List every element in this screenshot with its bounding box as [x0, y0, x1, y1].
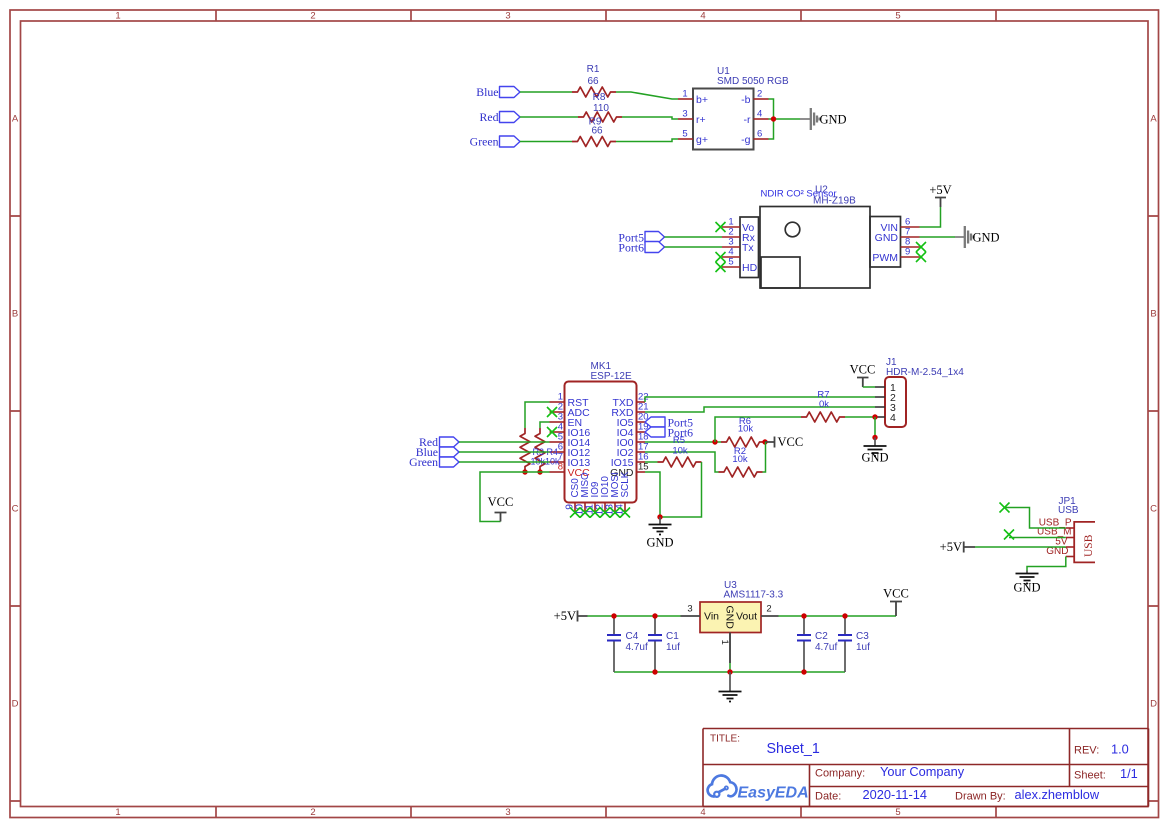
svg-text:R8: R8 [593, 92, 606, 103]
svg-text:Date:: Date: [815, 791, 841, 803]
svg-text:Sheet:: Sheet: [1074, 770, 1106, 782]
wire R8 to U1 pin3 [622, 117, 678, 119]
connector JP1 outline [1074, 522, 1095, 563]
junction dots top rail [611, 613, 616, 618]
svg-text:g+: g+ [696, 134, 708, 146]
U1 pin 5 g+ [678, 138, 693, 140]
wire R5 down to GND rail [660, 462, 702, 517]
bottom ground rail [614, 671, 845, 673]
svg-text:4.7uf: 4.7uf [626, 642, 648, 653]
capacitor C3 [838, 616, 870, 672]
ruler ticks right [1148, 216, 1159, 801]
capacitor C1 [648, 616, 680, 672]
wire Red to R8 [520, 116, 578, 118]
wire Green to IO13 [459, 461, 550, 463]
wire output rail [779, 615, 897, 617]
wire +5V to VIN [920, 207, 941, 227]
svg-text:B: B [1150, 309, 1156, 320]
U1 pin 1 b+ [678, 98, 693, 100]
wire GND pin down [1027, 557, 1066, 571]
sensor right pin block [870, 217, 901, 268]
svg-text:10k: 10k [732, 454, 748, 465]
EasyEDA logo cloud [708, 776, 737, 797]
svg-text:C: C [12, 504, 19, 515]
svg-text:Green: Green [470, 135, 499, 149]
bottom pin names CS0 MISO IO9 IO10 MOSI SCLK [570, 471, 631, 497]
svg-text:GND: GND [861, 451, 888, 465]
svg-text:4: 4 [890, 412, 896, 424]
wire RST to R3 [525, 402, 550, 428]
sensor lens circle [785, 222, 800, 237]
svg-text:Red: Red [479, 110, 498, 124]
U3 pin 2 [761, 615, 779, 617]
wire USB_M [1009, 537, 1066, 539]
svg-text:+5V: +5V [554, 609, 576, 623]
resistor R3 (vertical) [520, 428, 530, 472]
svg-text:PWM: PWM [872, 252, 898, 264]
wire R1 to U1 pin1 [616, 92, 678, 99]
capacitor C2 [797, 616, 837, 672]
svg-text:GND: GND [875, 232, 899, 244]
wire Red to IO14 [459, 441, 550, 443]
junction R4 bottom [537, 469, 542, 474]
svg-text:Blue: Blue [476, 85, 498, 99]
pin 3 Tx [722, 246, 740, 248]
svg-text:0k: 0k [819, 399, 829, 410]
wire VCC rail to flag [480, 472, 550, 522]
pin 17 IO2 [637, 451, 646, 453]
sensor notch [761, 257, 800, 288]
svg-text:VCC: VCC [883, 587, 909, 601]
svg-text:C: C [1150, 504, 1157, 515]
junction dots bottom rail [652, 669, 657, 674]
wire pin15 GND down [645, 472, 660, 517]
bottom pins 9-14 stubs [575, 503, 625, 514]
svg-text:2020-11-14: 2020-11-14 [863, 787, 928, 802]
svg-text:HDR-M-2.54_1x4: HDR-M-2.54_1x4 [886, 367, 964, 378]
port Blue [440, 447, 460, 457]
wire IO15 to R5 [645, 461, 658, 463]
JP1 pin GND [1066, 556, 1074, 558]
wire GND pin7 [920, 236, 956, 238]
X no-connect USB_P [1000, 503, 1010, 513]
junction J1 pin4 [872, 414, 877, 419]
svg-text:-b: -b [741, 94, 750, 106]
pin 8 [901, 246, 920, 248]
pin 5 IO14 [550, 441, 565, 443]
svg-text:VCC: VCC [850, 363, 876, 377]
svg-text:10k: 10k [672, 446, 688, 457]
resistor R9 [572, 137, 616, 147]
svg-text:10k: 10k [738, 424, 754, 435]
svg-text:1: 1 [115, 807, 120, 818]
svg-text:GND: GND [820, 113, 847, 127]
LED U1 body [693, 89, 754, 150]
VCC flag right of R6 [765, 437, 775, 448]
module MK1 body [565, 382, 637, 503]
junction GND node [657, 514, 662, 519]
JP1 pin USB_P [1066, 527, 1074, 529]
junction GND stub [872, 435, 877, 440]
port Red [440, 437, 460, 447]
wire USB_P [1005, 508, 1066, 529]
X no-connect pin4 [716, 252, 726, 262]
svg-text:REV:: REV: [1074, 745, 1099, 757]
ruler ticks bottom [216, 807, 996, 818]
pin 4 IO16 [550, 431, 565, 433]
svg-text:R5: R5 [673, 435, 685, 446]
U1 pin 3 r+ [678, 118, 693, 120]
svg-text:EasyEDA: EasyEDA [738, 785, 809, 802]
JP1 pin 5V [1066, 546, 1074, 548]
X no-connect pin2 [547, 407, 557, 417]
pin 4 [722, 256, 740, 258]
GND flag below USB [1016, 571, 1039, 584]
svg-text:Company:: Company: [815, 768, 865, 780]
U3 pin 3 [681, 615, 701, 617]
SECTION-USB [940, 496, 1095, 595]
wire input rail [588, 615, 681, 617]
pin 6 VIN [901, 226, 920, 228]
bottom pin numbers 9-14 [565, 504, 626, 516]
pin 1 RST [550, 401, 565, 403]
svg-text:HD: HD [742, 262, 758, 274]
pin 20 IO5 [637, 421, 646, 423]
pin 16 IO15 [637, 461, 646, 463]
svg-text:GND: GND [1013, 581, 1040, 595]
pin 7 GND [901, 236, 920, 238]
svg-text:SMD 5050 RGB: SMD 5050 RGB [717, 76, 789, 87]
svg-text:1: 1 [115, 11, 120, 22]
wire pin4 to GND [874, 417, 876, 438]
svg-text:D: D [1150, 699, 1157, 710]
svg-text:USB: USB [1058, 505, 1079, 516]
GND flag below J1 [864, 438, 887, 457]
svg-text:4: 4 [700, 807, 705, 818]
ruler ticks top [216, 10, 996, 21]
svg-text:GND: GND [724, 606, 736, 630]
resistor R8 [578, 112, 622, 122]
J1 pin 3 [875, 406, 885, 408]
svg-text:Port6: Port6 [618, 240, 644, 254]
svg-text:6: 6 [757, 129, 762, 140]
GND flag (rotated) at U1 [800, 108, 820, 130]
U1 pin 6 -g [754, 138, 769, 140]
port Port5 [645, 232, 665, 243]
svg-text:66: 66 [587, 76, 599, 87]
svg-text:b+: b+ [696, 94, 708, 106]
svg-text:Green: Green [409, 455, 438, 469]
pin 9 PWM [901, 256, 920, 258]
TITLEBLOCK [703, 729, 1149, 807]
wire R9 to U1 pin5 [616, 139, 678, 142]
resistor R7 [801, 412, 845, 422]
header J1 body [885, 377, 906, 427]
X no-connect pin4 [547, 427, 557, 437]
svg-text:+5V: +5V [929, 183, 951, 197]
capacitor C4 [607, 616, 648, 672]
svg-text:-g: -g [741, 134, 750, 146]
svg-text:Vout: Vout [736, 611, 757, 623]
pin 1 Vo [722, 226, 740, 228]
pin 8 VCC [550, 471, 565, 473]
pin 6 IO12 [550, 451, 565, 453]
wire Blue to R1 [520, 91, 572, 93]
wire U1 outputs bus [769, 99, 801, 139]
svg-text:Vin: Vin [704, 611, 719, 623]
svg-text:3: 3 [682, 109, 687, 120]
resistor R6 [721, 437, 765, 447]
svg-text:5: 5 [728, 257, 733, 268]
junction U1 pin4 [771, 116, 776, 121]
svg-text:A: A [12, 114, 19, 125]
svg-text:2: 2 [310, 807, 315, 818]
pin 22 TXD [637, 401, 646, 403]
GND flag below ESP [649, 517, 672, 535]
wire RXD to J1 pin3 [645, 407, 875, 412]
svg-text:Sheet_1: Sheet_1 [767, 741, 820, 757]
title block grid lines [703, 729, 1149, 807]
port Green [440, 457, 460, 467]
svg-text:1uf: 1uf [666, 642, 680, 653]
svg-text:9: 9 [905, 247, 910, 258]
svg-text:15: 15 [638, 462, 649, 473]
svg-text:alex.zhemblow: alex.zhemblow [1015, 787, 1100, 802]
svg-text:1: 1 [719, 640, 730, 645]
port Red [500, 112, 521, 123]
SECTION-REG [554, 580, 909, 702]
U1 pin 2 -b [754, 98, 769, 100]
junction IO0 node [712, 439, 717, 444]
svg-text:D: D [12, 699, 19, 710]
svg-text:B: B [12, 309, 18, 320]
SECTION-RGB [470, 64, 847, 150]
svg-text:1: 1 [682, 89, 687, 100]
SECTION-ESP [409, 361, 875, 550]
wire EN to R4 [540, 422, 550, 428]
resistor R5 [658, 457, 702, 467]
svg-text:3: 3 [687, 604, 692, 615]
pin 19 IO4 [637, 431, 646, 433]
pin 7 IO13 [550, 461, 565, 463]
wire IO0 node up to R7 row [715, 417, 801, 442]
wire Green to R9 [520, 141, 572, 143]
svg-text:AMS1117-3.3: AMS1117-3.3 [724, 590, 784, 601]
svg-text:4: 4 [757, 109, 762, 120]
GND symbol below regulator [719, 672, 742, 702]
X no-connect bottom pins [570, 508, 630, 518]
svg-text:GND: GND [973, 231, 1000, 245]
svg-text:r+: r+ [696, 114, 706, 126]
svg-text:1.0: 1.0 [1111, 742, 1129, 757]
port Port6 (left-pointing) [645, 427, 665, 437]
JP1 pin USB_M [1066, 537, 1074, 539]
svg-text:-r: -r [744, 114, 751, 126]
svg-text:3: 3 [505, 11, 510, 22]
pin 15 GND [637, 471, 646, 473]
svg-text:USB: USB [1083, 534, 1095, 557]
svg-text:2: 2 [757, 89, 762, 100]
svg-text:C2: C2 [815, 631, 828, 642]
J1 pin 1 [875, 386, 885, 388]
pin 3 EN [550, 421, 565, 423]
wire Port5 to Rx [665, 236, 723, 238]
svg-text:110: 110 [593, 103, 609, 114]
sensor left pin block [740, 217, 759, 278]
X no-connect USB_M [1004, 530, 1014, 540]
U1 pin 4 -r [754, 118, 769, 120]
svg-text:MH-Z19B: MH-Z19B [813, 196, 856, 207]
svg-text:VCC: VCC [488, 495, 514, 509]
svg-text:GND: GND [646, 536, 673, 550]
svg-text:TITLE:: TITLE: [710, 734, 740, 745]
resistor R4 (vertical) [535, 428, 545, 472]
port Port6 [645, 242, 665, 253]
svg-text:4.7uf: 4.7uf [815, 642, 837, 653]
resistor R2 [719, 467, 763, 477]
X no-connect pin1 [716, 222, 726, 232]
port Port5 (left-pointing) [645, 417, 665, 427]
svg-text:Drawn By:: Drawn By: [955, 791, 1006, 803]
J1 pin 2 [875, 396, 885, 398]
SECTION-SENSOR [618, 183, 999, 288]
SECTION-J1 [850, 357, 965, 465]
svg-text:5: 5 [895, 11, 900, 22]
GND flag (rotated) at sensor [955, 226, 974, 248]
wire R7 to J1 pin4 [845, 416, 875, 418]
wire +5V to 5V pin [975, 546, 1066, 548]
svg-text:R1: R1 [587, 64, 600, 75]
wire R2 to VCC node [763, 442, 766, 472]
pin 2 ADC [550, 411, 565, 413]
junction R3 bottom [522, 469, 527, 474]
port Green [500, 136, 521, 147]
pin 5 HD [722, 266, 740, 268]
sensor body [740, 207, 901, 289]
regulator U3 body [700, 602, 761, 633]
wire U3 pin1 to rail [729, 663, 731, 672]
svg-text:2: 2 [766, 604, 771, 615]
pin 2 Rx [722, 236, 740, 238]
svg-text:VCC: VCC [778, 435, 804, 449]
X no-connect pin5 [716, 262, 726, 272]
wire Blue to IO12 [459, 451, 550, 453]
svg-text:ESP-12E: ESP-12E [591, 371, 632, 382]
svg-text:Your Company: Your Company [880, 764, 965, 779]
svg-text:+5V: +5V [940, 540, 962, 554]
X no-connect pin9 [916, 252, 926, 262]
X no-connect pin8 [916, 242, 926, 252]
resistor R1 [572, 87, 616, 97]
svg-text:1uf: 1uf [856, 642, 870, 653]
svg-text:3: 3 [505, 807, 510, 818]
port Blue [500, 87, 521, 98]
svg-text:Tx: Tx [742, 242, 754, 254]
svg-text:2: 2 [310, 11, 315, 22]
ruler ticks left [10, 216, 21, 801]
svg-text:SCLK: SCLK [620, 471, 631, 497]
wire Port6 to Tx [665, 246, 723, 248]
wire VCC to pin1 [863, 386, 875, 388]
wire IO0 to R6 [645, 441, 721, 443]
svg-text:66: 66 [591, 126, 603, 137]
pin 18 IO0 [637, 441, 646, 443]
svg-text:A: A [1150, 114, 1157, 125]
svg-text:C4: C4 [626, 631, 639, 642]
junction R6 right [762, 439, 767, 444]
wire TXD to J1 pin2 [645, 397, 875, 402]
J1 pin 4 [875, 416, 885, 418]
wire IO2 to R2 [645, 452, 719, 472]
pin 21 RXD [637, 411, 646, 413]
svg-text:C3: C3 [856, 631, 869, 642]
svg-text:1/1: 1/1 [1120, 766, 1138, 781]
svg-text:5: 5 [682, 129, 687, 140]
svg-text:4: 4 [700, 11, 705, 22]
svg-text:C1: C1 [666, 631, 679, 642]
svg-text:5: 5 [895, 807, 900, 818]
U3 pin 1 (GND) [729, 633, 731, 664]
